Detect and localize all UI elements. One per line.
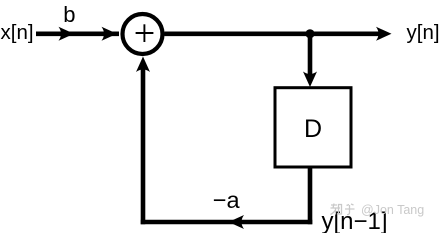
- watermark @Jon Tang: [361, 203, 424, 217]
- svg-text:D: D: [304, 115, 322, 143]
- junction node on output wire: [305, 29, 314, 38]
- arrowhead into summer bottom: [136, 57, 150, 73]
- wire: feedback left vertical up to summer: [141, 64, 146, 224]
- label x[n]: [1, 21, 34, 44]
- arrowhead at output: [376, 27, 392, 41]
- label -a (feedback gain): [213, 187, 241, 213]
- label D: [304, 115, 322, 143]
- svg-text:x[n]: x[n]: [1, 21, 34, 44]
- wire: delay block down: [308, 167, 313, 224]
- svg-text:y[n]: y[n]: [407, 21, 440, 44]
- plus sign in summer: [136, 24, 154, 42]
- arrowhead on input wire (at summer): [102, 27, 118, 41]
- wire: feedback bottom horizontal: [141, 220, 313, 225]
- delay block D: [275, 88, 351, 167]
- svg-text:−a: −a: [213, 187, 241, 213]
- watermark 知乎 glyphs: [331, 204, 355, 215]
- summer (adder) circle: [123, 14, 163, 54]
- svg-text:@Jon Tang: @Jon Tang: [361, 203, 424, 217]
- svg-text:b: b: [63, 2, 75, 27]
- arrowhead into delay block: [303, 72, 317, 88]
- wire: junction down to delay block: [308, 34, 313, 80]
- label y[n]: [407, 21, 440, 44]
- arrowhead on feedback wire (pointing left): [229, 215, 245, 229]
- label y[n-1]: [322, 208, 388, 235]
- label b (gain): [63, 2, 75, 27]
- wire: summer to output y[n]: [165, 31, 381, 36]
- arrowhead on input wire (mid): [59, 27, 75, 41]
- wire: input x[n] to summer: [36, 31, 119, 36]
